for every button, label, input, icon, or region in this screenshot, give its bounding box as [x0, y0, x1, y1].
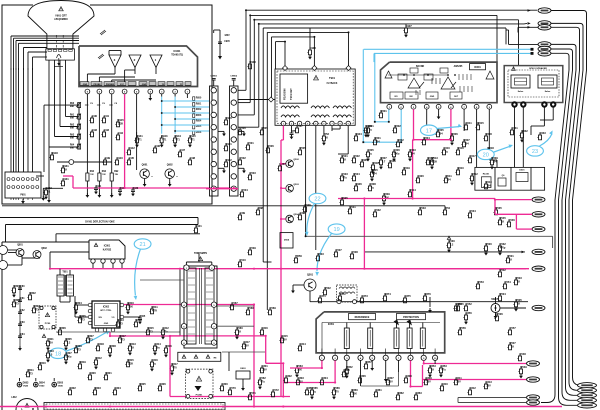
svg-text:VIN: VIN	[98, 317, 102, 319]
svg-text:T2A: T2A	[48, 341, 53, 344]
svg-text:R955: R955	[196, 126, 202, 128]
svg-text:Q503: Q503	[293, 184, 299, 186]
svg-text:C611: C611	[465, 121, 472, 125]
svg-text:Q801: Q801	[17, 245, 23, 247]
svg-text:KA7632: KA7632	[103, 249, 112, 252]
svg-text:2.2K: 2.2K	[432, 160, 437, 163]
svg-text:CN902: CN902	[230, 76, 238, 78]
svg-text:RL601: RL601	[483, 174, 490, 176]
svg-text:C93: C93	[104, 128, 109, 132]
svg-text:2.2K: 2.2K	[128, 362, 133, 365]
svg-text:Q802: Q802	[41, 248, 47, 250]
svg-text:17: 17	[426, 128, 432, 134]
svg-text:23: 23	[532, 149, 538, 155]
svg-text:R951: R951	[196, 103, 202, 105]
svg-text:R952: R952	[196, 109, 202, 111]
svg-text:D803: D803	[240, 368, 246, 370]
svg-text:Q502: Q502	[293, 159, 299, 161]
svg-text:C94: C94	[118, 131, 123, 135]
svg-text:22: 22	[314, 197, 320, 203]
svg-text:C95: C95	[129, 156, 134, 160]
svg-text:100u: 100u	[66, 355, 72, 358]
svg-text:R954: R954	[196, 120, 202, 123]
svg-text:Q501: Q501	[307, 274, 314, 277]
svg-text:R950: R950	[196, 98, 202, 100]
svg-text:V901 CRT: V901 CRT	[55, 15, 67, 18]
svg-text:R54: R54	[445, 206, 450, 210]
svg-text:R94: R94	[70, 144, 75, 147]
svg-text:D504: D504	[284, 239, 290, 242]
svg-text:470p: 470p	[500, 246, 506, 249]
svg-text:C97: C97	[180, 148, 185, 152]
svg-text:68K: 68K	[70, 128, 74, 130]
svg-text:R92: R92	[102, 171, 107, 173]
svg-text:PC801: PC801	[196, 395, 203, 397]
svg-text:GND: GND	[104, 323, 109, 325]
svg-text:18: 18	[55, 351, 61, 357]
svg-text:GND: GND	[83, 84, 88, 86]
svg-text:FEA530N: FEA530N	[283, 88, 287, 100]
svg-text:68K: 68K	[70, 148, 74, 150]
svg-text:GND: GND	[142, 84, 147, 86]
svg-text:T802 SMPS: T802 SMPS	[194, 252, 207, 255]
svg-text:1N40: 1N40	[39, 385, 45, 388]
svg-text:GND: GND	[430, 96, 435, 98]
svg-text:SP601 SPEAKER: SP601 SPEAKER	[529, 67, 547, 70]
svg-text:Q902: Q902	[167, 164, 174, 167]
svg-text:R92: R92	[114, 171, 119, 173]
svg-text:PROTECTION: PROTECTION	[403, 316, 419, 319]
svg-text:C89: C89	[240, 211, 245, 215]
svg-text:REFERENCE: REFERENCE	[355, 316, 370, 319]
svg-text:VCC: VCC	[120, 84, 125, 86]
svg-text:IC851: IC851	[328, 324, 335, 326]
svg-text:DY901 DEFLECTION YOKE: DY901 DEFLECTION YOKE	[85, 222, 115, 224]
svg-text:R88: R88	[258, 206, 263, 210]
svg-text:C905: C905	[224, 41, 230, 43]
svg-text:68K: 68K	[70, 118, 74, 120]
svg-text:CN901: CN901	[210, 76, 218, 78]
svg-text:10K: 10K	[352, 392, 357, 395]
svg-text:10K: 10K	[128, 305, 133, 308]
svg-text:19: 19	[333, 227, 339, 233]
svg-text:1N40: 1N40	[58, 385, 64, 388]
svg-text:2.2K: 2.2K	[118, 122, 123, 125]
svg-text:L802: L802	[11, 397, 17, 399]
svg-text:8ohm: 8ohm	[518, 91, 524, 93]
svg-text:VO: VO	[112, 317, 115, 319]
svg-text:C92: C92	[92, 128, 97, 132]
svg-text:P901: P901	[20, 195, 26, 197]
svg-text:IC801: IC801	[104, 245, 111, 248]
svg-text:PROBE2: PROBE2	[106, 84, 115, 86]
svg-text:D803: D803	[23, 382, 29, 385]
svg-text:4.7K: 4.7K	[152, 309, 157, 312]
svg-text:100u: 100u	[394, 152, 400, 155]
svg-text:FLYBACK: FLYBACK	[327, 82, 338, 85]
svg-text:A51QDM80X: A51QDM80X	[54, 18, 68, 21]
svg-text:R92: R92	[90, 171, 95, 173]
svg-text:R953: R953	[196, 115, 202, 117]
svg-text:8ohm: 8ohm	[545, 91, 551, 93]
svg-text:IC802: IC802	[103, 307, 110, 309]
svg-text:C88: C88	[300, 211, 305, 215]
svg-text:IC601: IC601	[474, 66, 481, 69]
svg-text:SOUND: SOUND	[416, 66, 425, 68]
svg-text:D601: D601	[519, 170, 525, 172]
svg-text:68K: 68K	[70, 138, 74, 140]
svg-text:C90: C90	[92, 114, 97, 118]
svg-text:D805: D805	[57, 382, 63, 385]
svg-text:20: 20	[483, 153, 489, 159]
svg-text:IC901: IC901	[174, 49, 181, 53]
svg-text:PC80: PC80	[45, 323, 51, 325]
svg-text:10K: 10K	[297, 368, 302, 371]
svg-text:21: 21	[139, 242, 145, 248]
svg-text:C99: C99	[105, 156, 110, 160]
svg-text:C96: C96	[155, 144, 160, 148]
svg-text:D804: D804	[39, 382, 45, 385]
svg-text:180V: 180V	[224, 35, 230, 37]
svg-text:T801: T801	[62, 272, 68, 274]
svg-text:R956: R956	[196, 132, 202, 134]
svg-text:T901: T901	[329, 76, 335, 80]
svg-text:C98: C98	[190, 156, 195, 160]
svg-text:68K: 68K	[70, 106, 74, 108]
svg-text:T901 FBT: T901 FBT	[289, 88, 293, 100]
svg-text:PROBE: PROBE	[93, 84, 101, 86]
svg-text:TDA6107Q: TDA6107Q	[171, 54, 183, 57]
svg-text:Q901: Q901	[142, 164, 149, 167]
svg-text:BTC CTRL: BTC CTRL	[101, 310, 113, 312]
svg-text:C91: C91	[104, 114, 109, 118]
svg-text:AN5265: AN5265	[454, 65, 463, 68]
svg-text:1N40: 1N40	[23, 385, 29, 388]
